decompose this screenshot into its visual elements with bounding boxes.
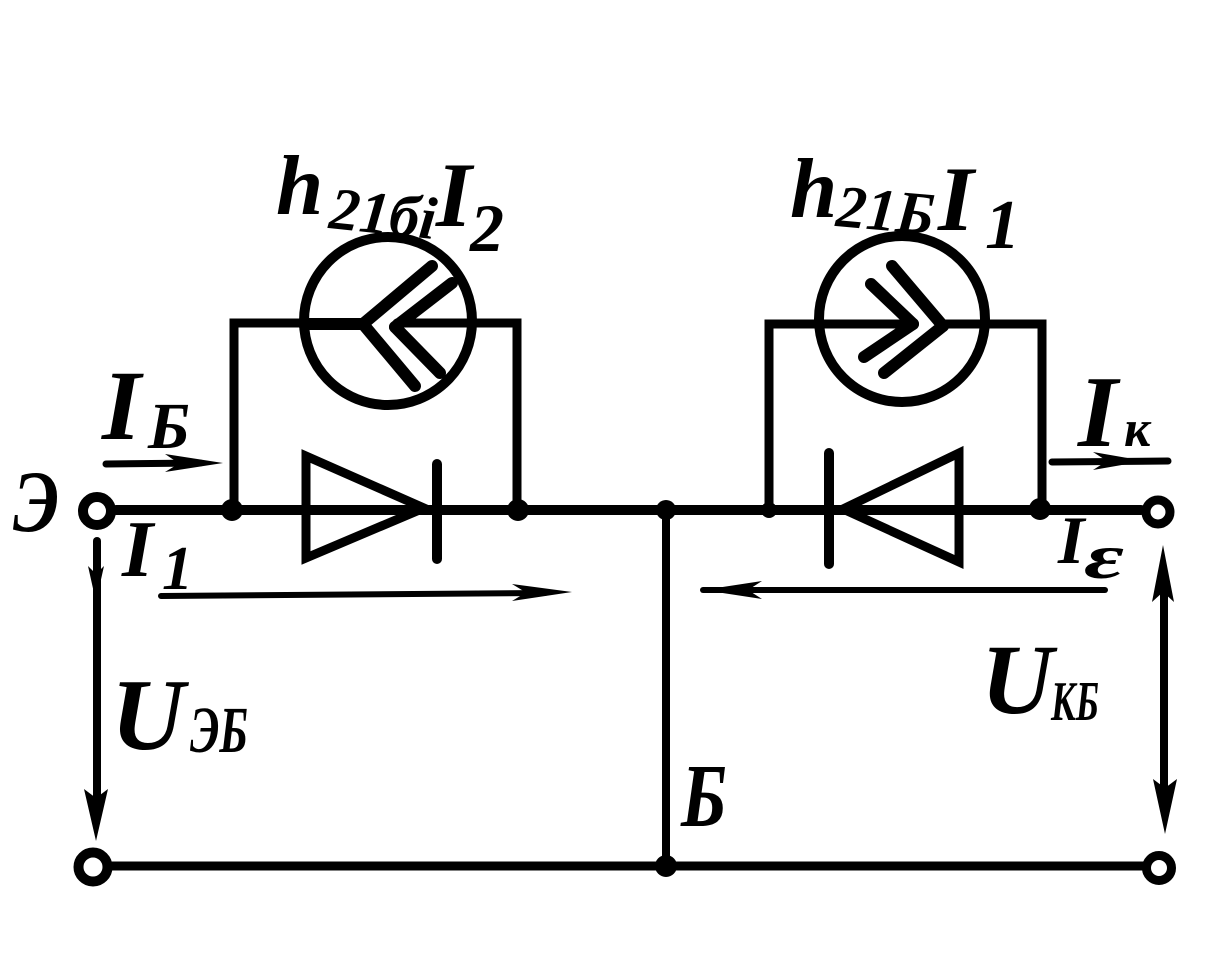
svg-text:21Б: 21Б: [833, 173, 938, 247]
svg-text:I: I: [121, 506, 156, 594]
svg-text:к: к: [1124, 401, 1152, 458]
svg-text:ε: ε: [1084, 521, 1124, 592]
svg-text:Б: Б: [147, 390, 190, 463]
svg-text:U: U: [981, 624, 1058, 735]
svg-text:1: 1: [162, 535, 193, 603]
svg-text:I: I: [1077, 356, 1121, 469]
svg-text:h: h: [790, 142, 837, 236]
svg-text:h: h: [276, 139, 323, 233]
svg-text:1: 1: [985, 187, 1020, 264]
svg-text:2: 2: [469, 190, 504, 266]
svg-text:21бi: 21бi: [326, 175, 440, 252]
svg-text:I: I: [1057, 502, 1087, 578]
svg-text:U: U: [111, 659, 190, 772]
svg-text:КБ: КБ: [1050, 671, 1099, 733]
svg-text:Э: Э: [13, 454, 59, 551]
svg-text:ЭБ: ЭБ: [190, 694, 248, 767]
svg-text:I: I: [435, 144, 475, 246]
svg-text:Б: Б: [680, 747, 727, 846]
svg-text:I: I: [937, 148, 977, 250]
svg-text:I: I: [101, 350, 144, 461]
